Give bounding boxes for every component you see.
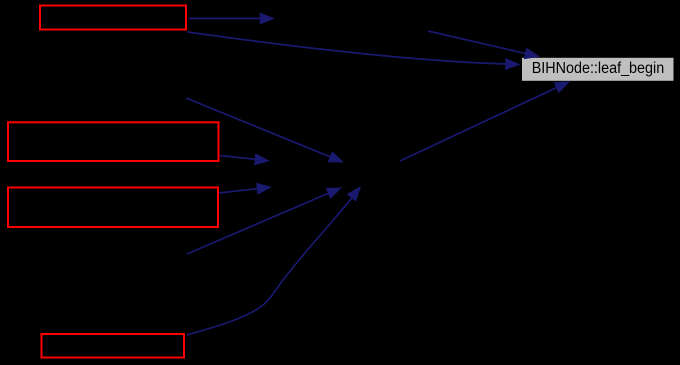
- svg-text:BIHNode::leaf_begin: BIHNode::leaf_begin: [532, 60, 665, 77]
- node BIHNode::leaf_begin (grey, current): [522, 57, 675, 81]
- edge E6: box3 -> hidden middle-left node: [219, 183, 272, 195]
- node box3 (red, middle-left lower): [8, 188, 218, 228]
- edge E5: box2 -> hidden middle-left node: [220, 153, 270, 165]
- edge E1: box1 -> hidden top node: [189, 13, 275, 25]
- node box4 (red, bottom-left): [42, 334, 185, 358]
- edge E9: box4 -> hidden middle node (curved): [187, 186, 361, 335]
- edge E2: box1 -> BIHNode::leaf_begin (curved): [188, 32, 521, 70]
- edge E8: hidden lower node -> hidden middle node: [187, 188, 342, 255]
- edge E7: hidden upper node -> hidden middle node: [186, 98, 344, 163]
- edge E4: hidden middle node -> BIHNode::leaf_begin: [400, 81, 570, 161]
- node box2 (red, middle-left upper): [8, 122, 219, 161]
- node box1 (red, top-left): [40, 6, 186, 30]
- edge E3: hidden top node -> BIHNode::leaf_begin: [428, 31, 540, 59]
